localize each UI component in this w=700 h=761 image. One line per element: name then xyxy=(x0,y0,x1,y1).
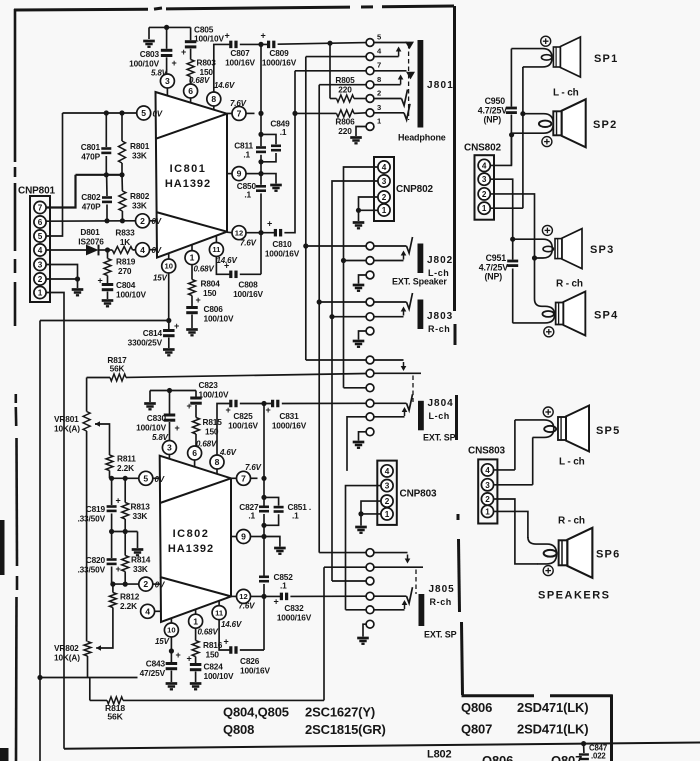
wire IC801 pin5 input row xyxy=(63,110,137,115)
jack J804 body bar xyxy=(418,401,424,431)
J803 contact switch xyxy=(366,313,374,321)
speaker SP4 xyxy=(542,292,585,336)
svg-text:4: 4 xyxy=(140,245,145,255)
svg-text:Q806: Q806 xyxy=(461,700,492,715)
wire J804 row5 to CNP803 bus xyxy=(347,417,366,471)
svg-text:C804: C804 xyxy=(116,280,136,290)
wire SP5 plus riser xyxy=(514,420,516,470)
wire L speaker bus A xyxy=(509,49,514,166)
svg-text:.1: .1 xyxy=(292,511,299,521)
ground stub at IC802 pin9 node xyxy=(264,537,286,554)
wire contact1 to ground xyxy=(356,127,366,137)
jack J805 body bar xyxy=(419,594,425,626)
label Q807 bottom strip xyxy=(551,753,582,761)
J803 switch arm xyxy=(374,307,406,317)
svg-text:8: 8 xyxy=(215,457,220,467)
wire CNS802 pin2 riser xyxy=(491,194,535,258)
svg-text:C806: C806 xyxy=(204,304,224,314)
svg-text:C843: C843 xyxy=(146,659,166,669)
svg-text:7.6V: 7.6V xyxy=(230,99,247,108)
svg-text:9: 9 xyxy=(237,169,242,179)
svg-text:SP6: SP6 xyxy=(596,549,620,561)
svg-text:SP4: SP4 xyxy=(594,310,618,322)
capacitor C851 parallel bracket xyxy=(264,497,311,525)
J801 contact 8 xyxy=(366,75,381,89)
CNP803 pin 2 xyxy=(381,495,393,507)
svg-text:C814: C814 xyxy=(143,328,163,338)
capacitor C850 xyxy=(237,181,266,200)
svg-text:0.68V: 0.68V xyxy=(198,628,219,637)
svg-text:EXT. Speaker: EXT. Speaker xyxy=(392,277,447,287)
svg-text:33K: 33K xyxy=(132,201,147,211)
svg-text:C951: C951 xyxy=(486,253,507,263)
J804 contact 5 xyxy=(366,413,374,421)
svg-text:14.6V: 14.6V xyxy=(214,81,235,90)
svg-text:3: 3 xyxy=(482,175,487,184)
svg-text:7: 7 xyxy=(38,203,43,212)
svg-text:+: + xyxy=(273,597,278,607)
svg-text:+: + xyxy=(224,31,229,41)
resistor R814 xyxy=(122,532,151,585)
pin 3 of IC801 xyxy=(160,74,174,88)
CNP803 pin 3 xyxy=(381,480,393,492)
svg-text:3: 3 xyxy=(385,482,390,491)
svg-text:0V: 0V xyxy=(153,110,163,119)
wire C831 output to J804 xyxy=(282,402,366,404)
capacitor C808 xyxy=(216,257,263,300)
wire J804 switch row right xyxy=(374,360,406,371)
J801 contact 1 xyxy=(366,117,382,131)
label Headphone xyxy=(398,133,446,143)
svg-text:J803: J803 xyxy=(427,311,453,322)
wire feedback mid node xyxy=(109,529,138,534)
pin 5 of IC801 xyxy=(137,106,163,120)
svg-text:.1: .1 xyxy=(248,511,255,521)
node C827 bottom xyxy=(261,523,266,528)
svg-text:11: 11 xyxy=(212,245,221,254)
connector CNP803 body xyxy=(377,461,397,525)
svg-text:100/10V: 100/10V xyxy=(204,314,234,324)
capacitor C809 xyxy=(260,31,296,68)
svg-text:4: 4 xyxy=(145,606,150,616)
wire J802 tip feed row xyxy=(303,243,365,248)
svg-text:3: 3 xyxy=(167,443,172,453)
svg-text:5: 5 xyxy=(38,232,43,241)
svg-text:0V: 0V xyxy=(152,246,162,255)
wire bottom return row xyxy=(40,677,138,679)
ground CNP803 xyxy=(355,527,367,533)
pin 10 of IC802 xyxy=(155,623,178,646)
wire SP2 top lead xyxy=(512,114,554,134)
svg-text:4.6V: 4.6V xyxy=(219,448,237,457)
svg-text:+: + xyxy=(115,496,120,506)
svg-text:CNP802: CNP802 xyxy=(396,184,433,195)
svg-text:Q807: Q807 xyxy=(461,722,492,737)
CNS802 pin 3 xyxy=(478,173,490,185)
capacitor C827 xyxy=(239,502,269,521)
svg-text:R811: R811 xyxy=(117,454,136,464)
svg-text:C825: C825 xyxy=(233,411,253,421)
svg-text:+: + xyxy=(174,321,179,331)
svg-text:(NP): (NP) xyxy=(484,115,502,125)
speaker SP5 xyxy=(544,406,589,452)
pin 7 of IC802 xyxy=(237,463,262,485)
wire contact7 row xyxy=(295,70,366,72)
wire CNP801 pin5 riser xyxy=(47,113,63,236)
wire J803 speaker-line row xyxy=(332,316,366,318)
wire CNS803 pin3 xyxy=(494,484,533,486)
svg-text:33K: 33K xyxy=(132,151,147,161)
capacitor C843 xyxy=(140,637,181,682)
svg-text:4: 4 xyxy=(485,466,490,475)
svg-text:CNS802: CNS802 xyxy=(464,143,501,154)
resistor R804 xyxy=(189,265,221,298)
wire CNP801 pin7 riser xyxy=(47,175,76,208)
wire CNS803 pin2 riser xyxy=(494,499,538,564)
J803 contact sleeve xyxy=(366,327,374,335)
wire J803 sleeve to ground xyxy=(359,331,366,340)
wire CNP803 pin2 stub xyxy=(358,501,380,516)
wire pin7 to node IC802 xyxy=(251,477,258,479)
capacitor C806 xyxy=(186,295,234,328)
svg-text:220: 220 xyxy=(338,126,352,136)
CNP801 pin 1 xyxy=(34,286,46,298)
svg-text:1: 1 xyxy=(193,616,198,626)
svg-text:C823: C823 xyxy=(199,380,219,390)
svg-text:8: 8 xyxy=(377,75,381,84)
pin 7 of IC801 xyxy=(230,99,247,120)
CNP801 pin 7 xyxy=(34,201,46,213)
wire CNP801 pin1 long bus down xyxy=(47,293,65,749)
capacitor C805 xyxy=(181,25,225,60)
speaker SP1 xyxy=(541,37,580,77)
label CNP802 xyxy=(396,184,433,195)
J801 ring break contact xyxy=(406,72,415,80)
J801 contact 3 xyxy=(366,103,381,117)
wire J805 row2 right ext xyxy=(374,566,423,568)
svg-text:1000/16V: 1000/16V xyxy=(265,249,300,259)
svg-text:J801: J801 xyxy=(427,80,454,91)
svg-text:R802: R802 xyxy=(130,191,150,201)
label J804 L-ch xyxy=(429,411,450,421)
capacitor C847 xyxy=(579,744,607,761)
svg-text:3: 3 xyxy=(485,481,490,490)
resistor R802 xyxy=(119,175,150,221)
svg-text:CNS803: CNS803 xyxy=(468,446,505,457)
svg-text:1K: 1K xyxy=(120,237,130,247)
J801 contact 7 xyxy=(366,61,381,75)
wire CNP802 pin2 stub xyxy=(356,197,378,213)
CNP802 pin 4 xyxy=(378,161,390,173)
wire SP5 minus riser xyxy=(532,437,534,484)
svg-text:+: + xyxy=(175,650,180,660)
wire +15V supply row xyxy=(40,318,171,323)
svg-text:6: 6 xyxy=(192,448,197,458)
svg-text:C808: C808 xyxy=(238,280,258,290)
wire pin9 to node IC802 xyxy=(251,534,267,539)
svg-text:R801: R801 xyxy=(130,141,150,151)
svg-text:33K: 33K xyxy=(133,511,148,521)
svg-text:6: 6 xyxy=(188,86,193,96)
wire pin7 to node xyxy=(246,112,255,114)
svg-text:VR802: VR802 xyxy=(54,643,79,653)
capacitor C830 xyxy=(136,391,179,443)
label Q808 type xyxy=(223,722,386,737)
capacitor C814 xyxy=(128,321,179,349)
label J803 R-ch xyxy=(428,324,450,334)
svg-text:33K: 33K xyxy=(133,564,148,574)
svg-text:14.6V: 14.6V xyxy=(221,620,242,629)
svg-text:EXT. SP: EXT. SP xyxy=(423,433,456,443)
wire speaker feed bus L (contact4) xyxy=(305,57,307,360)
wire R805 feed xyxy=(329,43,331,98)
svg-text:4: 4 xyxy=(385,467,390,476)
ground J803 xyxy=(353,341,365,347)
svg-text:R819: R819 xyxy=(116,257,136,267)
svg-text:C824: C824 xyxy=(204,662,224,672)
wire pin10 riser xyxy=(168,273,170,321)
svg-text:3: 3 xyxy=(377,103,381,112)
wire CNP801 pin3 to pin2 node xyxy=(47,265,78,280)
svg-text:C807: C807 xyxy=(230,48,250,58)
resistor R806 xyxy=(295,110,366,136)
CNP802 pin 3 xyxy=(378,175,390,187)
svg-text:3: 3 xyxy=(165,76,170,86)
wire J801 contact2 row xyxy=(374,90,407,106)
ground CNP801 pins 2/3 xyxy=(72,290,84,296)
CNS802 pin 1 xyxy=(478,202,490,214)
svg-text:2: 2 xyxy=(385,497,390,506)
svg-text:R804: R804 xyxy=(201,279,221,289)
svg-text:C802: C802 xyxy=(81,192,101,202)
svg-text:1000/16V: 1000/16V xyxy=(272,421,307,431)
wire J805 row2 bus to R818 xyxy=(323,567,325,700)
op-amp IC802 outline xyxy=(160,456,231,622)
resistor R815 xyxy=(193,417,223,449)
J801 switch arm contact8 xyxy=(374,75,403,85)
wire pin8 bootstrap riser xyxy=(214,44,230,92)
svg-text:15V: 15V xyxy=(153,274,168,283)
svg-text:10: 10 xyxy=(167,626,175,635)
connector CNS802 body xyxy=(475,155,495,220)
capacitor C803 xyxy=(129,27,176,77)
pin 9 of IC802 xyxy=(237,530,251,544)
wire IC801 output node column xyxy=(260,44,262,274)
svg-text:.33/50V: .33/50V xyxy=(77,565,105,575)
svg-text:J802: J802 xyxy=(427,255,453,266)
wire CNP802 pin1 stub xyxy=(359,210,378,221)
wire CNP803 pin3 bus down xyxy=(346,486,381,610)
svg-text:10: 10 xyxy=(164,262,172,271)
speaker SP3 xyxy=(543,229,582,269)
svg-text:3300/25V: 3300/25V xyxy=(128,338,163,348)
svg-text:1000/16V: 1000/16V xyxy=(262,58,297,68)
node contact3 tap xyxy=(292,111,297,116)
capacitor C852 xyxy=(259,572,293,591)
capacitor C820 xyxy=(77,532,120,585)
label L-ch upper xyxy=(553,88,579,99)
wire J802 sleeve to ground xyxy=(359,275,366,284)
wire J801 ring row xyxy=(374,70,406,72)
label Q804 Q805 types xyxy=(223,705,375,720)
wire C810 output riser xyxy=(284,71,295,233)
wire pin8 bootstrap riser IC802 xyxy=(217,404,230,456)
label J805 R-ch xyxy=(430,597,452,607)
svg-text:R813: R813 xyxy=(131,502,151,512)
border bottom of right section xyxy=(462,695,613,761)
pin 11 of IC801 xyxy=(209,243,237,266)
svg-text:11: 11 xyxy=(215,608,224,617)
CNS803 pin 4 xyxy=(481,464,493,476)
svg-text:10K(A): 10K(A) xyxy=(54,653,80,663)
label Q806 type xyxy=(461,700,588,715)
svg-text:C826: C826 xyxy=(240,656,260,666)
wire J802 tip row right xyxy=(374,237,412,253)
label SP6 xyxy=(596,549,620,561)
resistor R803 xyxy=(187,58,216,86)
CNS803 pin 2 xyxy=(481,493,493,505)
svg-text:4: 4 xyxy=(482,161,487,170)
potentiometer VR801 xyxy=(54,378,100,434)
svg-text:C810: C810 xyxy=(272,239,292,249)
ground below C824 xyxy=(190,684,202,690)
svg-text:3: 3 xyxy=(382,177,387,186)
svg-text:56K: 56K xyxy=(107,712,123,722)
svg-text:7.6V: 7.6V xyxy=(240,239,257,248)
svg-text:L802: L802 xyxy=(427,749,452,761)
svg-text:100/10V: 100/10V xyxy=(194,34,224,44)
svg-text:1000/16V: 1000/16V xyxy=(277,613,312,623)
wire SP3 bottom lead xyxy=(532,255,537,260)
svg-text:IC801: IC801 xyxy=(170,163,207,175)
border left of amplifier section (dashed) xyxy=(15,9,17,761)
resistor R819 xyxy=(104,250,136,276)
svg-text:7: 7 xyxy=(237,108,242,118)
wire CNS802 pin3 riser xyxy=(491,179,513,239)
wire CNS803 pin4 xyxy=(494,469,515,471)
node between C807 and C809 xyxy=(258,42,263,47)
label SP2 xyxy=(593,119,617,131)
wire VR802 bottom xyxy=(87,656,89,678)
svg-text:CNP801: CNP801 xyxy=(18,186,55,197)
capacitor C825 xyxy=(225,400,258,431)
wire J805 speaker-line row3 xyxy=(332,580,366,582)
op-amp IC801 outline xyxy=(156,92,228,258)
wire CNP801 pin2 stub xyxy=(47,276,81,288)
svg-text:1: 1 xyxy=(385,510,390,519)
svg-text:2: 2 xyxy=(38,275,43,284)
capacitor C950 xyxy=(478,96,517,125)
svg-text:100/16V: 100/16V xyxy=(240,666,270,676)
svg-text:HA1392: HA1392 xyxy=(165,178,211,190)
svg-text:.1: .1 xyxy=(280,127,287,137)
wire J805 tip feed row xyxy=(319,552,365,554)
svg-text:2: 2 xyxy=(140,216,145,226)
svg-text:+: + xyxy=(115,564,120,574)
diode D801 1S2076 xyxy=(47,227,113,255)
wire IC802 pin stubs xyxy=(153,455,237,624)
wire J802 speaker-line row xyxy=(344,260,366,262)
wire J805 row2 xyxy=(324,566,366,568)
svg-text:3: 3 xyxy=(38,260,43,269)
svg-text:+: + xyxy=(195,295,200,305)
svg-text:Q808: Q808 xyxy=(223,722,254,737)
wire SP1 positive feed xyxy=(511,49,552,67)
wire J804 tip feed row xyxy=(306,359,366,361)
svg-text:100/10V: 100/10V xyxy=(199,390,229,400)
svg-text:7.6V: 7.6V xyxy=(239,602,256,611)
wire J803 tip feed row xyxy=(317,299,366,304)
CNP801 pin 6 xyxy=(34,216,46,228)
wire CNS802 pin4 riser xyxy=(491,135,512,166)
svg-text:R-ch: R-ch xyxy=(428,324,450,334)
svg-text:8: 8 xyxy=(211,94,216,104)
pin 3 of IC802 xyxy=(162,441,176,455)
jack J801 body bar xyxy=(418,40,424,128)
svg-text:2.2K: 2.2K xyxy=(120,601,137,611)
svg-text:R814: R814 xyxy=(131,555,151,565)
svg-text:5: 5 xyxy=(143,473,148,483)
resistor R811 xyxy=(95,424,136,478)
label J801 xyxy=(427,80,454,91)
wire SP1 negative down xyxy=(522,67,524,68)
svg-text:150: 150 xyxy=(203,288,217,298)
J802 switch arm xyxy=(374,251,406,261)
svg-text:0.68V: 0.68V xyxy=(194,265,215,274)
wire J805 switch row right xyxy=(374,553,410,564)
pin 6 of IC802 xyxy=(188,446,202,460)
J804 contact 3 xyxy=(366,384,374,392)
node C803 top xyxy=(164,25,169,30)
connector CNS803 body xyxy=(478,459,497,523)
J805 contact 6 xyxy=(366,620,374,628)
svg-text:R-ch: R-ch xyxy=(430,597,452,607)
label J804 xyxy=(428,398,454,409)
node IC802 pin7 junction xyxy=(261,476,266,481)
node D801 cathode xyxy=(105,247,110,252)
svg-text:.1: .1 xyxy=(280,581,287,591)
capacitor C823 xyxy=(186,380,229,418)
ground at IC802 supply row xyxy=(144,391,156,410)
wire CNS802 pin1 riser xyxy=(491,207,523,209)
svg-text:2SC1627(Y): 2SC1627(Y) xyxy=(305,705,375,720)
svg-text:+: + xyxy=(181,47,186,57)
svg-text:Q806: Q806 xyxy=(482,753,513,761)
svg-text:+: + xyxy=(97,276,102,286)
svg-text:0V: 0V xyxy=(155,475,165,484)
svg-text:6: 6 xyxy=(38,218,43,227)
svg-text:100/10V: 100/10V xyxy=(116,290,146,300)
svg-text:1: 1 xyxy=(190,253,195,263)
J805 contact 2 xyxy=(366,563,374,571)
svg-text:SP1: SP1 xyxy=(594,53,618,65)
svg-text:220: 220 xyxy=(338,85,352,95)
wire input divider node row xyxy=(76,172,125,177)
J804 contact 2 xyxy=(366,369,374,377)
label SP4 xyxy=(594,310,618,322)
pin 2 of IC801 xyxy=(136,214,162,228)
svg-text:1: 1 xyxy=(38,288,43,297)
ground J804 xyxy=(353,442,365,448)
wire J805 tip row right xyxy=(374,587,412,603)
label SP3 xyxy=(590,244,614,256)
speaker SP2 xyxy=(539,99,586,147)
svg-text:+: + xyxy=(260,31,265,41)
speaker SP6 xyxy=(544,528,593,578)
svg-text:1: 1 xyxy=(485,507,490,516)
svg-text:SP2: SP2 xyxy=(593,119,617,131)
svg-text:.1: .1 xyxy=(244,190,251,200)
